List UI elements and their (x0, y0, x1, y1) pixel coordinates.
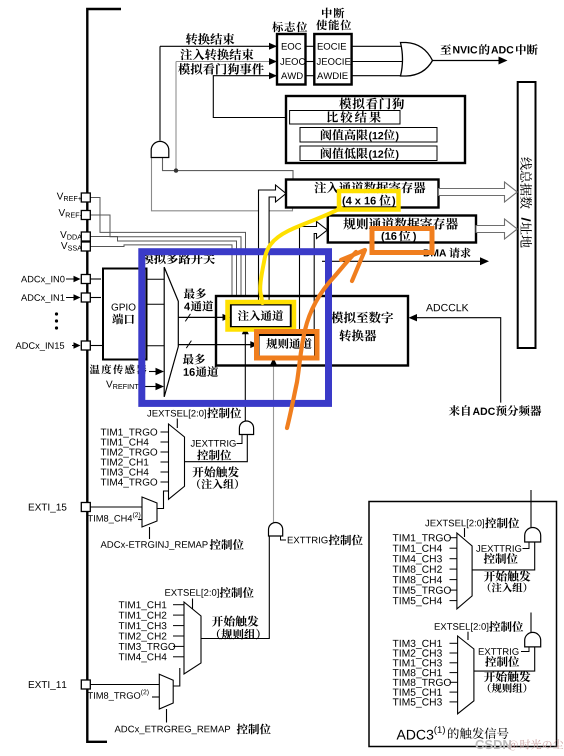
text ADC3 JEXTSEL label (425, 520, 429, 527)
text EXTTRIG (288, 537, 293, 544)
box regular channels (259, 335, 316, 358)
wire EOC gate input left loop (152, 158, 293, 211)
text GPIO (112, 304, 119, 311)
mux TIM8_TRGO remap (159, 674, 173, 709)
wire EXTTRIG dash (281, 536, 287, 540)
label regular channels (266, 338, 277, 349)
text TIM rows regular (119, 601, 125, 608)
wire ADC3 JEXTTRIG dash (523, 542, 530, 549)
label ADC3 EXTSEL ctrl bits (489, 621, 500, 632)
label ETRGINJ remap ctrl bits (210, 539, 221, 550)
text VREFINT (106, 381, 113, 388)
wire VDDA supply (90, 237, 237, 297)
gate ADC3 EXTTRIG (525, 632, 541, 647)
highlight yellow box on injected channels (228, 302, 295, 330)
text ADC3 TIM rows regular (393, 640, 399, 647)
wire ADCx_IN1 to GPIO (90, 297, 101, 299)
bus open arrow from injected register (439, 182, 518, 202)
label ADC converter (331, 312, 343, 324)
pin input arrows (66, 278, 74, 280)
box low threshold (300, 146, 437, 161)
wires ADC3 injected TIM inputs (450, 537, 457, 539)
wire ADC3 EXT mux out to gate (474, 647, 535, 671)
text ADC3 JEXTTRIG (476, 545, 480, 552)
box compare result (290, 111, 400, 125)
label ADC3 JEXTTRIG ctrl bits (484, 553, 495, 564)
mux analog multiplexer (164, 267, 178, 397)
text JEXTTRIG (191, 440, 195, 447)
bus bar address/data (518, 82, 536, 348)
highlight blue rectangle (142, 252, 329, 404)
text TIM rows injected (101, 429, 107, 436)
wire ADC3 EXT gate output (530, 613, 532, 633)
highlight orange box on 16bit (372, 229, 432, 253)
wire EXT gate output to regular channel (273, 364, 275, 523)
mux TIM8_CH4 remap (142, 497, 157, 527)
text EXTI_15 (29, 504, 34, 511)
wire ADCCLK into ADC core (411, 318, 501, 403)
wire box1-box2 connectors (306, 45, 315, 47)
text ADC3 EXTTRIG (479, 648, 484, 655)
label threshold high (321, 129, 332, 140)
wire OR output to NVIC (433, 60, 505, 62)
label threshold low (321, 148, 332, 159)
wire ADC3 JEXT mux out to gate (472, 542, 535, 570)
wire temp sensor arrow (149, 371, 157, 373)
label injected data register title (314, 182, 326, 194)
wire JEXTSEL mux out to gate (185, 435, 248, 462)
text ADCx-ETRGINJ_REMAP (101, 541, 107, 548)
label analog mux (142, 253, 154, 265)
wire regular data up to register (bent open arrow) (300, 222, 328, 342)
dots between IN1 and IN15 (55, 312, 58, 315)
gate JEXTTRIG enable (239, 421, 253, 435)
wire remap mux2 out to EXTSEL mux (173, 668, 180, 686)
label interrupt enable flags (322, 8, 332, 19)
box regular data register (328, 216, 476, 243)
label ADC3 EXTTRIG ctrl bits (485, 656, 496, 667)
wire EXTSEL select stub (192, 599, 194, 610)
box high threshold (300, 128, 437, 143)
label start trigger injected group (192, 467, 203, 478)
text TIM8_CH4(2) (88, 515, 93, 521)
box EOCIE/JEOCIE/AWDIE enables (314, 34, 351, 85)
label ADC3 start trig regular (484, 671, 495, 682)
wire EXTI_11 to remap mux2 (90, 684, 159, 686)
label max 16 channels (183, 354, 194, 365)
or-gate to NVIC (401, 43, 433, 77)
watermark CSDN (476, 740, 485, 749)
text ADC3 TIM rows injected (393, 534, 399, 541)
wires TIM inputs to EXTSEL mux (173, 604, 184, 606)
gate ADC3 JEXTTRIG (525, 528, 541, 543)
wire left spine (87, 9, 121, 742)
text JEXTSEL label (147, 410, 151, 417)
wire ADC3 EXTTRIG dash (521, 647, 529, 652)
label conversion end (186, 33, 198, 45)
wire EOC gate input right / JEOC net (163, 158, 294, 180)
label EXTTRIG ctrl bits (329, 535, 340, 546)
wire 4-channel line to injected box (178, 316, 223, 318)
bus open arrow from regular register (476, 219, 517, 239)
label address data bus vertical (521, 235, 532, 247)
text ADCx pin names (21, 276, 27, 282)
wire remap mux out to JEXTSEL mux (157, 491, 169, 509)
label 16 bits (382, 232, 385, 242)
wires TIM inputs to JEXTSEL mux (161, 431, 169, 433)
text ADCx_ETRGREG_REMAP (115, 726, 121, 733)
slash 4ch (185, 314, 190, 322)
wire JEXTSEL select stub (176, 419, 178, 429)
wire DMA request (322, 260, 480, 262)
highlight yellow box on 4x16 (339, 191, 399, 210)
label JEXTTRIG ctrl bits (197, 450, 208, 461)
wire VSSA supply (90, 245, 232, 296)
highlight orange box on regular channels (257, 332, 318, 359)
label DMA request (424, 249, 430, 256)
label GPIO port (112, 314, 123, 325)
wires ADC3 regular TIM inputs (450, 642, 458, 644)
wire ADCx_IN0 to GPIO (90, 278, 101, 280)
wire ADC3 EXTSEL stub (467, 632, 469, 640)
text EXTSEL label (165, 589, 170, 596)
label temperature sensor (90, 365, 100, 375)
wire TIM8_TRGO to remap mux2 (152, 696, 159, 698)
label ADC3 triggers caption (397, 730, 406, 740)
label EXTSEL ctrl bits (220, 587, 231, 598)
label start trigger regular group (212, 616, 223, 627)
wire TIM8_CH4 to remap mux (138, 519, 142, 521)
highlight orange curve arrow (287, 252, 356, 428)
mux EXTSEL selector (184, 602, 201, 674)
wire ADC3 JEXT gate output (530, 490, 532, 527)
wire box2 to OR gate (352, 45, 403, 47)
label JEXTSEL ctrl bits (207, 408, 218, 419)
wire VREF+ supply (90, 198, 246, 297)
wire JEOC flag line (176, 61, 276, 63)
wire remap select stub injected (149, 527, 151, 539)
text VREF+ VREF- VDDA VSSA (57, 193, 64, 200)
label ADC3 start trig injected (484, 571, 495, 582)
text EOCIE JEOCIE AWDIE (318, 43, 323, 50)
text ADC3 EXTSEL label (435, 623, 440, 630)
label ADC3 JEXTSEL ctrl bits (485, 518, 496, 529)
wire ADCx_IN15 to GPIO (90, 345, 103, 347)
gate EXTTRIG enable (269, 522, 283, 536)
box ADC core converter (216, 296, 408, 366)
label injected channels (238, 310, 249, 321)
wire 16-channel line to regular box (178, 344, 251, 346)
text ADCCLK (426, 304, 433, 311)
wire JEXT gate output to injected channel (244, 333, 246, 421)
box injected data register (286, 180, 439, 208)
mux JEXTSEL selector (169, 424, 185, 499)
box EOC/JEOC/AWD flags (277, 34, 306, 85)
wire vrefint arrow (142, 386, 157, 388)
label max 4 channels (184, 288, 195, 299)
wire AWD flag line (213, 76, 289, 118)
label to NVIC ADC interrupt (440, 44, 451, 54)
label analog watchdog event (178, 63, 190, 75)
wire VREF- supply (90, 215, 241, 296)
label compare result (327, 111, 338, 122)
box injected channels (231, 305, 291, 328)
mux ADC3 EXTSEL (458, 636, 474, 714)
wire ADC3 JEXTSEL stub (464, 528, 466, 537)
text EOC JEOC AWD (282, 43, 287, 50)
label 4x16 bits (343, 196, 346, 206)
wire remap select stub regular (166, 709, 168, 723)
wire EXTSEL mux out to EXT gate (201, 536, 269, 639)
mux ADC3 JEXTSEL (457, 533, 472, 609)
label regular data register title (343, 218, 355, 230)
text EXTI_11 (29, 681, 34, 688)
box ADC3 triggers (369, 502, 557, 747)
wire GPIO to mux (147, 278, 165, 280)
wire EXTI_15 to remap mux (90, 506, 142, 508)
wire EOC flag line (160, 45, 276, 47)
pin squares on spine (81, 193, 90, 202)
box GPIO port (103, 269, 147, 360)
box analog watchdog (286, 96, 465, 163)
slash 16ch (186, 341, 191, 349)
gate EOC generator (151, 141, 169, 157)
wire EOC gate output (159, 46, 161, 140)
label injected conversion end (180, 49, 192, 61)
label ETRGREG remap ctrl bits (237, 724, 248, 735)
wire JEXTTRIG dash (237, 435, 243, 444)
text TIM8_TRGO(2) (88, 692, 93, 698)
label analog watchdog title (339, 98, 351, 110)
wire injected data up to register (bent open arrow) (259, 185, 287, 304)
label from ADC prescaler (449, 405, 460, 416)
highlight yellow curve arrow (260, 208, 341, 303)
